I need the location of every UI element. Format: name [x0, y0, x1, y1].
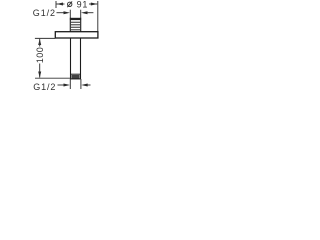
dimension D1 dimension line left segment [57, 3, 65, 5]
dimension D4 right-pointing arrowhead [64, 84, 71, 87]
dimension D1 dimension line right segment [89, 3, 97, 5]
dimension D1 right arrowhead [91, 3, 98, 6]
dimension D1 diameter symbol slash [67, 1, 72, 7]
dimension D4 left-pointing arrowhead [81, 84, 88, 87]
dimension D1 left arrowhead [57, 3, 64, 6]
pipe right wall [80, 38, 82, 79]
dimension D1 right extension line down to flange corner [97, 1, 99, 32]
dimension D3 bottom extension line at pipe end [35, 77, 70, 79]
dimension D2 nipple left extension line [69, 10, 71, 18]
ceiling flange plate [55, 32, 98, 38]
svg-text:G1/2: G1/2 [33, 82, 56, 92]
svg-text:G1/2: G1/2 [33, 8, 56, 18]
threaded nipple thread band 3 [70, 27, 80, 28]
pipe left wall [70, 38, 72, 79]
threaded nipple thread band 1 [70, 22, 80, 23]
threaded nipple thread band 4 [70, 29, 80, 30]
dimension D3 up arrowhead [38, 39, 41, 45]
dimension D4 tail right [87, 84, 90, 86]
dimension D1 left extension tick [55, 1, 57, 8]
dimension D2 right-pointing arrowhead [64, 11, 71, 14]
dimension D2 tail right [87, 12, 93, 14]
threaded nipple right side [80, 18, 82, 32]
pipe bottom thread tip [71, 73, 81, 75]
dimension D2 leader tail from label [57, 12, 65, 14]
pipe bottom thread tip body [71, 75, 79, 79]
svg-text:91: 91 [77, 0, 89, 9]
threaded nipple left side [69, 18, 71, 32]
dimension D3 vertical top extension line under flange [35, 37, 55, 39]
pipe bottom edge [70, 78, 81, 80]
dimension D2 nipple right extension line [80, 10, 82, 18]
dimension D4 pipe right extension line [80, 79, 82, 89]
dimension D4 leader tail from label [58, 84, 65, 86]
dimension D3 down arrowhead [38, 72, 41, 78]
dimension D1 diameter 91 label [68, 2, 72, 6]
dimension D3 line lower segment [39, 64, 41, 78]
threaded nipple thread band 2 [70, 24, 80, 25]
threaded nipple top bar [70, 18, 81, 20]
dimension D3 line upper segment [39, 39, 41, 47]
svg-text:100: 100 [35, 47, 45, 63]
dimension D4 pipe left extension line [69, 79, 71, 89]
dimension D2 left-pointing arrowhead [81, 11, 88, 14]
